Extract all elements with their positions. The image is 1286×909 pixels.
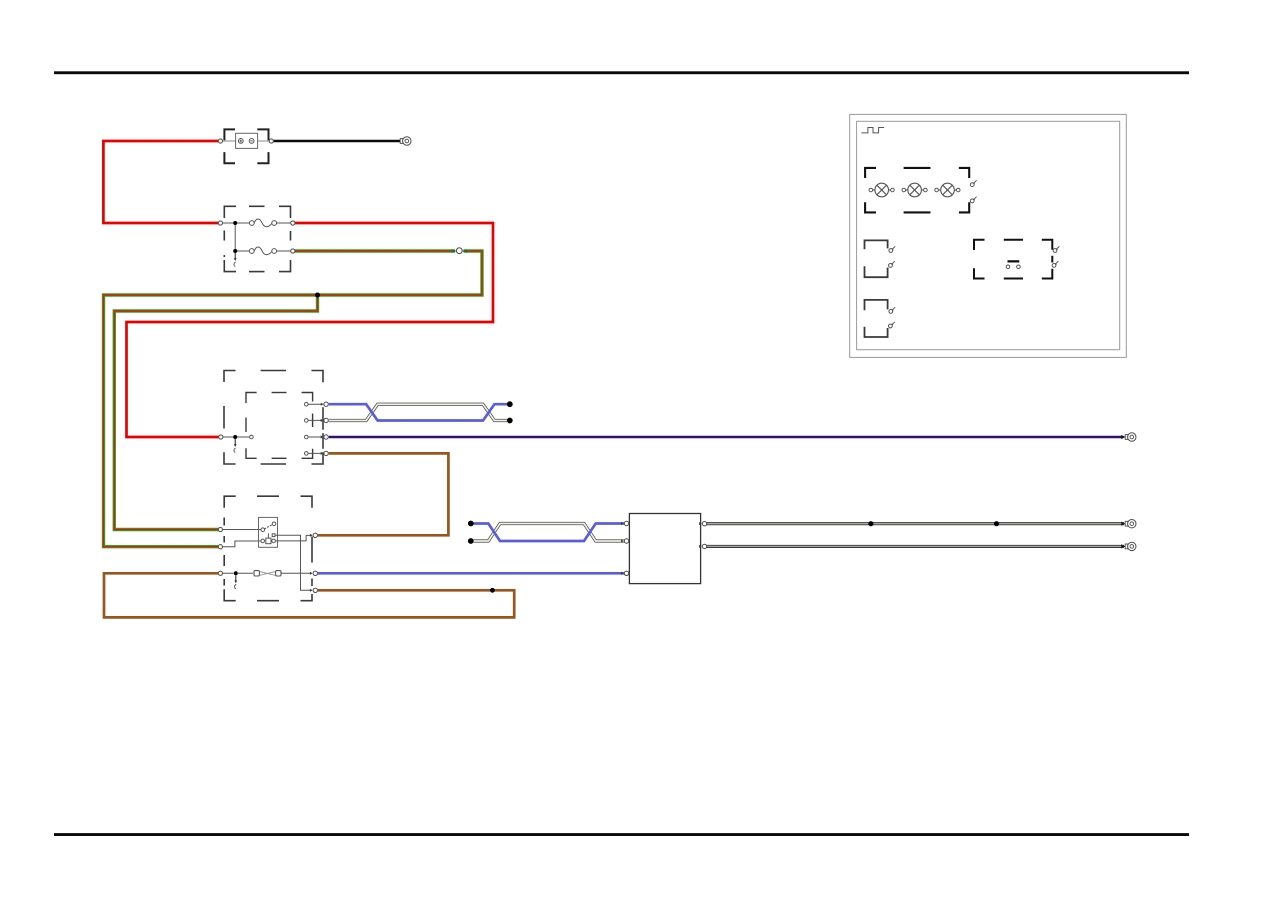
wire: violet to ground right [329, 436, 1123, 438]
wire: gray module output bottom [706, 545, 1124, 548]
wire start dot top [468, 521, 474, 527]
connector half shell 1b [865, 266, 888, 277]
battery terminal + [238, 139, 243, 144]
wire end dot bottom [507, 418, 513, 424]
switch body [259, 517, 278, 547]
fusebox pin right F2 [291, 249, 295, 253]
switch pin 3 [218, 571, 222, 575]
lamp cluster pin right 2 [970, 197, 976, 203]
battery pin left [218, 139, 222, 143]
twisted pair (module): blue wire [474, 524, 626, 542]
sensor pin right 2 [1052, 261, 1058, 267]
wire: red battery feed B+ [103, 141, 219, 223]
connector terminal relay pin 2 [321, 418, 329, 422]
connector half shell 2a [865, 300, 888, 310]
lamp L1 pin right [891, 188, 895, 192]
module pin right 2 [699, 544, 707, 548]
lamp L2 pin right [924, 188, 928, 192]
fuse F1 [249, 221, 254, 226]
wire end arrow gray top [1121, 522, 1125, 526]
twisted pair (relay): white wire [329, 404, 507, 420]
wire: green/red from fuse 2 to junction S1 and switch pin (GN-RD) [104, 251, 483, 547]
junction dot brown loop [490, 588, 495, 593]
wire end dot top [507, 401, 513, 407]
fusebox internal bus [223, 223, 291, 251]
junction S1 [315, 293, 320, 298]
inline fuse link [254, 571, 259, 576]
sensor element pin a [1006, 265, 1010, 269]
bottom rule [54, 833, 1189, 836]
module pin left 1 [621, 521, 629, 525]
module pin left 3 [621, 571, 629, 575]
battery lead line [223, 140, 271, 142]
lamp L1 [873, 183, 891, 197]
wire end arrow gray bottom [1121, 544, 1125, 548]
switch input line 2 step [223, 541, 262, 547]
junction dot fusebox row2 [233, 249, 237, 253]
lamp unit outer frame [850, 114, 1127, 357]
connector terminal switch blue output [310, 571, 318, 575]
lamp L3 pin right [956, 188, 960, 192]
junction dot fusebox row1 [233, 221, 237, 225]
switch output pad [272, 534, 275, 537]
connector half shell 1a [865, 240, 888, 249]
lamp L1 pin left [869, 188, 873, 192]
junction dot relay [233, 435, 237, 439]
wire end arrow violet [1121, 435, 1125, 439]
connector terminal relay pin 1 [321, 402, 329, 406]
connector terminal switch brown return [310, 588, 318, 592]
splice arrow relay [234, 439, 237, 452]
switch S2 dashed housing [224, 496, 312, 601]
relay K1 outer dashed housing [224, 371, 323, 465]
ring terminal violet [1125, 433, 1136, 441]
twisted pair (module): white wire [474, 524, 626, 542]
switch output line to lower pin [275, 535, 312, 590]
wire: gray module output top [706, 522, 1124, 525]
battery cable black to ground [273, 140, 403, 143]
fuse F2 [249, 249, 254, 254]
switch lever [264, 525, 272, 529]
wire: brown switch loop [104, 573, 514, 617]
lamp cluster bracket [865, 168, 969, 213]
lamp L2 [905, 183, 923, 197]
top rule [54, 71, 1189, 74]
switch detent [267, 533, 269, 538]
connector terminal relay pin 4 [321, 451, 329, 455]
relay K1 inner dashed element [246, 393, 313, 459]
switch fused row line [223, 572, 254, 574]
flasher pulse symbol [862, 128, 885, 133]
lamp L3 [938, 183, 956, 197]
fusebox P100 dashed housing [224, 206, 290, 271]
fusebox pin left [218, 221, 222, 225]
splice dot gray 1 [868, 521, 873, 526]
ring terminal gray bottom [1125, 542, 1136, 550]
relay pin 1 [305, 402, 309, 406]
module pin right 1 [699, 522, 707, 526]
sensor element pin b [1017, 265, 1021, 269]
lamp L2 pin left [902, 188, 906, 192]
splice arrow switch [235, 575, 238, 588]
sensor element bar [1008, 260, 1020, 262]
ring terminal gray top [1125, 520, 1136, 528]
switch pin 2 [218, 545, 222, 549]
lamp L3 pin left [935, 188, 939, 192]
sensor pin right 1 [1053, 246, 1059, 252]
module M1 box [629, 514, 700, 584]
connector terminal switch brown feed [310, 533, 318, 537]
battery body [236, 133, 258, 148]
connector half shell 2b [865, 327, 888, 337]
relay pin left [219, 435, 223, 439]
junction dot switch [234, 571, 238, 575]
relay inner pin [250, 435, 254, 439]
fusebox pin right F1 [291, 221, 295, 225]
wire: brown relay to switch [318, 453, 448, 535]
connector C100 inline on green/red wire [452, 249, 457, 252]
splice dot gray 2 [994, 521, 999, 526]
ground eyelet E1 [400, 137, 411, 145]
connector terminal relay pin 3 [321, 435, 329, 439]
relay coil feed line [223, 436, 249, 438]
wire: green/red branch from junction S1 to switch pin 1 [114, 295, 317, 530]
relay pin 3 [305, 435, 309, 439]
relay pin 2 [305, 419, 309, 423]
switch output line to upper pin [275, 535, 312, 541]
splice arrow fusebox [234, 253, 237, 266]
wire: red fusebox output to relay [127, 223, 494, 437]
wire: blue switch to module [317, 572, 626, 575]
sensor bracket box [974, 240, 1052, 279]
relay pin 4 [305, 452, 309, 456]
module pin left 2 [621, 539, 629, 543]
battery terminal - [249, 139, 254, 144]
switch input line 1 [223, 529, 262, 531]
switch pin 1 [218, 527, 222, 531]
wire start dot bottom [468, 538, 474, 544]
battery fusible link F0 brackets [224, 129, 268, 163]
battery pin right [269, 139, 273, 143]
relay pin lines right [308, 404, 323, 453]
lamp cluster pin right 1 [970, 180, 976, 186]
twisted pair (relay): blue wire [329, 404, 507, 420]
